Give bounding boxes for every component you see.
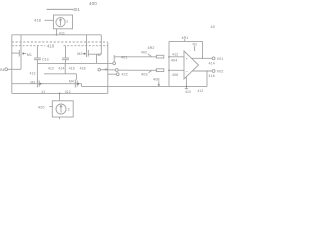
rail long bottom — [82, 85, 208, 87]
capacitor C1 — [36, 46, 38, 58]
svg-text:4R2: 4R2 — [148, 46, 155, 50]
resistor R2b — [156, 69, 164, 72]
svg-text:40: 40 — [211, 25, 215, 29]
svg-text:C1s: C1s — [42, 57, 49, 61]
wire top rail — [12, 34, 102, 36]
transistor M1 — [20, 35, 22, 50]
wire low jog — [64, 63, 66, 73]
wire mid tap — [37, 62, 112, 64]
svg-text:400: 400 — [89, 1, 97, 6]
svg-text:413: 413 — [30, 72, 36, 76]
wire CN to box bottom — [59, 93, 61, 100]
wire right inner rail — [100, 35, 102, 54]
svg-text:402: 402 — [141, 50, 147, 54]
svg-text:403: 403 — [141, 73, 148, 77]
source AC1 circle — [56, 18, 65, 27]
op-amp U1 — [184, 51, 199, 79]
box right edge — [107, 43, 109, 94]
label 430 arrow to edge — [104, 69, 108, 71]
transistor M2 — [86, 35, 88, 50]
svg-text:421: 421 — [121, 56, 127, 60]
svg-text:412: 412 — [48, 66, 54, 70]
svg-text:420: 420 — [38, 105, 45, 109]
svg-text:1: 1 — [66, 20, 68, 24]
wire out plus — [192, 57, 213, 59]
node out plus terminal — [212, 57, 215, 60]
wire feedback bottom right — [206, 71, 208, 86]
wire feedback top rail — [169, 40, 203, 42]
svg-text:+: + — [186, 56, 189, 61]
ground stem — [185, 77, 187, 89]
node port lower circle — [115, 69, 118, 72]
capacitor C2 — [65, 46, 67, 58]
svg-text:414: 414 — [209, 61, 215, 65]
box top edge dashed — [12, 41, 108, 43]
svg-text:418: 418 — [34, 17, 42, 22]
source CN2 box — [52, 101, 73, 117]
svg-text:404: 404 — [171, 59, 177, 63]
source AC1 arrow — [60, 19, 62, 26]
svg-text:M3: M3 — [31, 80, 36, 84]
wire M1 source to left port — [20, 57, 22, 69]
svg-text:M4: M4 — [69, 80, 74, 84]
svg-text:408: 408 — [153, 78, 160, 82]
wire feedback vertical — [168, 41, 170, 86]
svg-text:414: 414 — [58, 66, 64, 70]
svg-text:V02: V02 — [217, 70, 224, 74]
svg-text:R2: R2 — [193, 42, 197, 46]
node out minus terminal — [212, 70, 215, 73]
svg-text:M2: M2 — [77, 52, 82, 56]
svg-text:2: 2 — [68, 107, 70, 111]
svg-text:416: 416 — [209, 74, 215, 78]
svg-text:401: 401 — [73, 7, 81, 12]
svg-text:422: 422 — [122, 73, 128, 77]
svg-text:416: 416 — [69, 66, 75, 70]
wire out minus — [192, 70, 212, 72]
svg-text:412: 412 — [65, 90, 71, 94]
svg-text:V01: V01 — [217, 57, 224, 61]
box left edge — [11, 35, 13, 94]
source CN2 circle — [56, 104, 66, 114]
wire leader to 401 — [47, 8, 74, 10]
svg-text:410: 410 — [185, 90, 191, 94]
svg-text:412: 412 — [198, 89, 204, 93]
source AC1 box — [54, 15, 73, 29]
svg-text:410: 410 — [47, 43, 55, 48]
svg-text:412: 412 — [172, 53, 178, 57]
wire AC to bridge top — [56, 29, 58, 35]
svg-text:41: 41 — [42, 90, 46, 94]
node port upper circle — [113, 62, 116, 65]
transistor M4 — [74, 80, 76, 88]
node port inner circle — [98, 68, 101, 71]
wire M2 source down — [96, 54, 98, 63]
rail bottom inner — [12, 83, 82, 85]
svg-text:418: 418 — [80, 66, 86, 70]
transistor M3 — [36, 80, 38, 88]
svg-text:42: 42 — [97, 53, 101, 57]
svg-text:B1: B1 — [0, 68, 5, 72]
svg-text:M1: M1 — [27, 53, 32, 57]
svg-text:406: 406 — [172, 73, 178, 77]
box bottom edge — [12, 92, 108, 94]
svg-text:−: − — [186, 69, 189, 74]
resistor R2a — [156, 55, 164, 58]
